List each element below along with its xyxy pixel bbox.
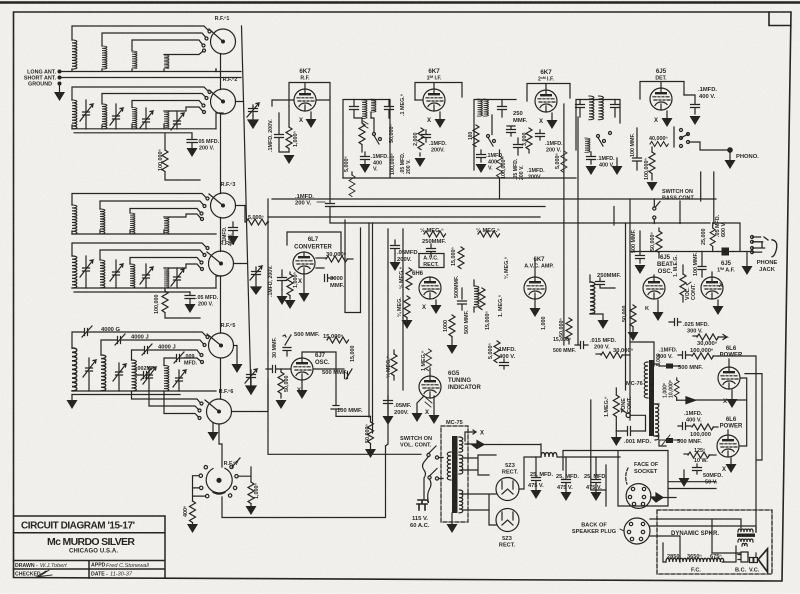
trimmer C9 bank5 <box>83 358 96 391</box>
switch R.F.7 <box>199 458 240 498</box>
capacitor .1MFD 200V 6L7 <box>277 270 288 305</box>
tube 6J5 DET <box>650 88 672 110</box>
resistor 100000 6L6b <box>692 424 718 430</box>
label 400 RF7 <box>183 506 189 517</box>
resistor half meg bus <box>424 231 446 237</box>
resistor 25000 af <box>710 223 715 252</box>
label X 6L6a <box>723 399 727 405</box>
wire vertical x403 <box>402 229 404 390</box>
label .1MFD 200V 2IF <box>545 141 563 154</box>
resistor quarter meg v <box>402 296 413 329</box>
label .05MFD 200V T2 <box>513 158 525 180</box>
capacitor 3000 MMF <box>316 268 334 282</box>
capacitor 1MFD 400V T1 <box>360 152 371 173</box>
wire 6J5DET plate top <box>640 82 684 100</box>
coil T2 secondary <box>484 99 489 116</box>
variable capacitor RF6 out <box>245 369 257 394</box>
wire 6K71IF grid <box>415 99 422 101</box>
wire det column b <box>700 172 702 201</box>
label X 6J7 <box>297 388 301 394</box>
coil L1 bank1 <box>72 40 77 69</box>
capacitor 4000J lower <box>132 344 204 360</box>
capacitor .1MFD 400V T2 <box>476 150 487 173</box>
label 100000 6L6a <box>690 347 714 354</box>
ground 6L6b <box>726 458 737 473</box>
label PHONO <box>736 154 759 160</box>
wire RF7 bottom long <box>222 446 386 518</box>
capacitor T2 primary <box>498 101 507 118</box>
wire switch shaft RF3-RF4 <box>220 218 222 252</box>
title block box <box>14 516 166 578</box>
coil L4 bank1 <box>164 55 169 69</box>
wire output stage box <box>630 342 666 446</box>
tube 6J7 <box>291 358 313 380</box>
label .1MFD 200V 6L7 <box>268 265 274 297</box>
node PHONO <box>725 148 736 169</box>
label 10000 mid <box>669 380 675 398</box>
wire bank1 stair 3 <box>132 40 205 51</box>
wire bus y228 <box>330 217 710 223</box>
coil L17 bank5 <box>72 348 77 391</box>
capacitor .1MFD 200V 2IF <box>536 130 545 140</box>
wire vertical x622 <box>625 223 627 390</box>
label 4000J upper <box>131 335 149 341</box>
label quarter MEG right <box>503 257 510 279</box>
label TONE CONT <box>621 396 633 413</box>
label 50000 osc out <box>365 424 371 443</box>
capacitor 500MNF 6L6a <box>659 364 680 369</box>
ground 6L7 cathode <box>299 275 310 302</box>
capacitor 30MMF <box>266 366 290 373</box>
wire bus y197 <box>272 198 716 200</box>
capacitor .1MFD 200V plate <box>326 204 335 218</box>
capacitor 25MFD 475V no2 <box>561 457 572 501</box>
label 15000 rot osc <box>350 346 356 363</box>
title text Mc MURDO SILVER <box>47 536 135 555</box>
label .1MFD 200V 1IF <box>429 141 447 154</box>
capacitor .05 T2 <box>514 138 523 155</box>
wire det column c <box>713 172 715 224</box>
wire bank1 stair 2 <box>102 33 208 46</box>
label 6J5 BEAT OSC <box>657 255 673 275</box>
tube 6L7 <box>293 252 315 274</box>
wire vertical x562 <box>563 104 565 345</box>
wire vertical x630 bass <box>629 199 631 420</box>
wire bank2 bottom bus <box>72 124 216 129</box>
ground 6K7RF cathode <box>306 112 317 128</box>
tube 6H6 <box>419 277 441 299</box>
tube 6L6 top <box>718 359 740 389</box>
label .1MFD 200V T2 low <box>527 168 545 181</box>
label 100000 T1 <box>390 153 396 175</box>
capacitor .001 MFD <box>616 427 645 436</box>
resistor 50000 osc out <box>365 416 376 458</box>
wire bus y217 <box>268 216 540 218</box>
capacitor 500MMF 6H6 <box>458 288 467 310</box>
label X 1st AF <box>719 283 723 289</box>
resistor 1000 v 6H6 <box>447 315 458 354</box>
wire vertical x569 <box>577 117 579 345</box>
label 1MEG vol <box>673 255 679 277</box>
ground 6H6 <box>431 300 442 314</box>
ground bank5 <box>67 395 78 410</box>
coil L19 bank5 <box>132 360 137 391</box>
capacitor .015 <box>575 342 588 349</box>
label 1MEG right <box>498 295 504 317</box>
capacitor .05 600V <box>718 248 733 256</box>
resistor 50000 mid <box>566 318 572 344</box>
label .002MF <box>136 366 156 372</box>
label .05MFD 200V T1 <box>400 152 412 174</box>
label X 6L6b <box>722 467 726 473</box>
label 5Z3 RECT top <box>502 463 519 476</box>
label 250MMF beat <box>597 273 621 279</box>
label 500MMF osc2 <box>322 370 348 376</box>
label .05MFD 200V avc <box>397 250 420 263</box>
resistor 2000 v <box>418 128 424 150</box>
potentiometer VOL CONT <box>680 265 691 302</box>
wire speaker connections <box>650 519 756 562</box>
wire socket plug verticals <box>591 400 606 490</box>
resistor 3000 cath <box>526 128 532 153</box>
wire 6K7RF grid left <box>272 100 293 106</box>
ground 6J5DET cathode <box>662 111 673 127</box>
wire bank3 bottom bus <box>72 230 216 234</box>
label 3000 MMF <box>330 276 345 289</box>
label 4000J lower <box>158 345 176 351</box>
label SWITCH ON VOL CONT <box>400 436 432 449</box>
wire vertical x361 <box>369 223 373 433</box>
wire bank4 stair 1 <box>72 243 209 256</box>
resistor BFO <box>479 288 485 310</box>
label 100MMF af <box>693 252 699 276</box>
coil L6 bank2 <box>102 104 107 129</box>
label .025 MFD 300V <box>683 322 710 335</box>
wire bus y178 <box>343 177 576 179</box>
coil AVC plate <box>590 275 609 329</box>
wire bank4 stair 3 <box>130 258 203 265</box>
wire RF6 right out <box>232 380 269 412</box>
label 6J5 1st AF <box>717 261 735 274</box>
label half MEG 6H6 <box>398 267 405 289</box>
label 6K7 R.F. <box>299 68 311 82</box>
resistor 30000 bass <box>693 334 727 340</box>
capacitor .1MFD 6L6b <box>678 423 691 430</box>
contacts T3 switch <box>597 132 612 147</box>
label 500MMF 6H6 <box>454 275 460 298</box>
capacitor T3 secondary <box>611 100 620 118</box>
label quarter meg G5 <box>385 356 392 378</box>
resistor 50000 beat <box>628 305 639 341</box>
label 5000 RF3 <box>248 215 264 221</box>
capacitor 500MMF 15000 mid <box>553 337 576 354</box>
wire bank3 stair 1 <box>72 194 209 206</box>
capacitor 25MFD 475V no3 <box>591 457 602 501</box>
wire 6L6 plates right <box>695 356 762 532</box>
transformer MC-76 core <box>649 360 654 436</box>
switch R.F.1 <box>209 29 236 54</box>
wire 6K72IF plate top <box>527 84 570 102</box>
transformer MC-75 secondary top <box>459 437 463 452</box>
coil L9 bank3 <box>72 205 77 234</box>
coil L20 bank5 <box>164 366 169 392</box>
label 500MMF beatosc <box>631 229 637 253</box>
box FACE OF SOCKET <box>563 451 716 507</box>
wire bank5 stairs to RF6 <box>132 391 204 405</box>
resistor 1000 6K7RF <box>284 106 295 164</box>
wire B plus row <box>465 444 541 489</box>
resistor 30000 6L7 <box>316 256 353 262</box>
leader face of socket <box>626 468 628 484</box>
label .1MFD 400V g5 <box>497 347 516 360</box>
tube 6K7 R.F. <box>294 89 316 111</box>
trimmer C5 <box>80 256 93 288</box>
contacts T1 switch <box>371 118 382 144</box>
label quarter MEG bus <box>476 227 500 234</box>
resistor 125 10W <box>684 452 716 458</box>
resistor 30000 line <box>596 352 630 358</box>
label 5Z3 RECT bottom <box>499 536 516 549</box>
arrow mid feed <box>677 397 696 404</box>
coil T3 small <box>585 138 590 153</box>
choke coil psu <box>541 453 620 458</box>
ground 6L6a <box>727 390 738 408</box>
transformer MC-75 primary <box>447 452 451 480</box>
capacitor .1MFD 400V DET <box>684 95 701 125</box>
label 50000 T1 <box>389 124 395 143</box>
wire RF2 out right <box>216 102 244 129</box>
capacitor 500MMF osc top <box>283 335 291 356</box>
coil L3 bank1 <box>132 51 137 69</box>
title text checked/date row <box>15 572 133 578</box>
trimmer C3 <box>140 108 153 129</box>
box DYNAMIC SPKR dashed <box>657 510 772 574</box>
wire bank5 bottom bus <box>72 391 216 395</box>
label 6L6 POWER bottom <box>720 417 743 430</box>
label 100MMF osc out <box>337 408 363 414</box>
label 30000 line <box>613 347 634 354</box>
trimmer C4 <box>171 112 184 130</box>
coil T3 secondary <box>599 96 604 120</box>
wire RF5 down ground <box>232 346 243 374</box>
resistor 100000 bank2 <box>162 150 200 180</box>
label 6K7 AVC AMP <box>524 257 554 270</box>
label 1000 RF7 <box>254 483 260 499</box>
resistor 100000 T2 <box>497 150 503 199</box>
label .1MFD 400V 6L6a <box>657 348 678 361</box>
label 5000 T3 <box>555 153 561 169</box>
resistor 1MEG 6G5 <box>426 349 432 371</box>
trimmer C10 bank5 <box>113 363 126 391</box>
capacitor .05 avc <box>390 240 401 271</box>
label 500 MNF 6L6b <box>677 439 702 445</box>
contacts T2 switch <box>487 115 496 146</box>
capacitor .1MFD 6L6a <box>678 352 691 359</box>
label 30000 bass <box>697 340 718 347</box>
wire vertical x388 <box>386 229 389 446</box>
tube 6J5 1st AF <box>701 272 723 299</box>
capacitor .05 6G5 <box>383 396 394 425</box>
switch R.F.6 <box>205 399 232 424</box>
capacitor .1MFD 200V 1IF <box>415 130 431 167</box>
label 30MMF <box>272 337 278 358</box>
wire bank1 stair 1 <box>72 26 211 40</box>
wire bank3 stair 4 <box>164 214 204 221</box>
wire 6K7RF plate top <box>289 83 330 107</box>
wire bank5 stair3 RF6 <box>164 391 201 420</box>
label 50000 beat <box>622 306 628 323</box>
trimmer C8 <box>171 268 184 288</box>
label 6K7 1st IF <box>427 68 442 82</box>
label X MC75 <box>480 431 484 437</box>
switch R.F.3 <box>209 193 236 218</box>
coil L16 bank4 <box>164 268 169 288</box>
switch R.F.5 <box>207 333 234 358</box>
label 6L6 POWER top <box>720 346 743 359</box>
capacitor .1MFD 400V T3 <box>586 152 623 175</box>
label X 6K7RF <box>299 118 303 124</box>
transformer MC-76 winding lower <box>655 404 659 440</box>
label 1000 6H6 <box>443 320 449 332</box>
wire bank3 stair 2 <box>100 201 206 209</box>
resistor quarter meg G5 <box>391 350 397 380</box>
trimmer C1 <box>80 100 93 129</box>
label X 6L7 <box>298 279 302 285</box>
resistor 15000 osc <box>327 337 349 343</box>
wire mains cord <box>423 457 432 504</box>
resistor 5000 T3 <box>561 151 567 173</box>
label 1 MEG T1 <box>400 94 406 116</box>
phone jack symbol <box>751 236 777 257</box>
ground 6G5 <box>412 396 440 424</box>
label 6H6 <box>412 271 424 277</box>
ground 6K72IF cathode <box>547 113 558 129</box>
capacitor .1MFD 200V 6K7RF <box>275 113 290 152</box>
transformer MC-75 secondary mid <box>459 455 463 474</box>
bass contact bank <box>674 127 690 148</box>
label 1MEG 6G5 <box>421 351 427 371</box>
wire 6K7RF plate right down <box>317 97 330 203</box>
label 1MEG tone <box>604 397 610 417</box>
label BC VC <box>735 568 760 574</box>
wire rect plates <box>463 455 496 525</box>
potentiometer tone <box>611 388 622 446</box>
capacitor .002MF <box>136 369 151 380</box>
label 6L7 CONVERTER <box>294 237 332 251</box>
IF transformer T1 can <box>343 100 390 179</box>
capacitor 4000J upper <box>101 334 206 355</box>
label 50MFD 50V <box>703 473 723 486</box>
variable capacitor RF4 out <box>250 266 262 294</box>
border corner tab <box>769 12 791 26</box>
socket arrow <box>651 493 676 502</box>
wire bank2 lower bus <box>74 133 192 150</box>
ground MC75 <box>447 513 458 533</box>
label 25000 af <box>701 229 707 246</box>
label 1000 mid <box>663 383 669 398</box>
switch R.F.4 <box>207 251 234 276</box>
wire shaft RF6-RF7 <box>219 424 222 467</box>
wire bank1 bottom bus long ant <box>60 69 217 72</box>
label PHONE JACK <box>757 260 778 273</box>
label 1MFD 400V T1 <box>371 154 389 173</box>
label 100000 bank4 <box>154 295 160 315</box>
ground 6K71IF cathode <box>435 112 446 128</box>
wire bank4 stair 2 <box>100 250 206 260</box>
label 100 MMF <box>630 133 636 157</box>
variable capacitor RF2 out <box>247 103 259 128</box>
trimmer C12 bank5 <box>173 370 186 391</box>
label 500 MNF 6L6a <box>678 365 703 371</box>
label 500MMF BFO <box>464 310 470 334</box>
label 6K7 2nd IF <box>538 69 555 83</box>
antenna input labels <box>24 70 57 88</box>
wire bank2 stair 4 <box>164 107 206 114</box>
capacitor 500MNF 6L6b <box>659 435 680 445</box>
label VOL CONT <box>685 283 697 300</box>
ground 6J7 <box>297 381 308 399</box>
transformer MC-76 winding <box>644 362 648 398</box>
label .015 MFD 200V <box>590 338 617 351</box>
ground beat osc <box>653 300 664 321</box>
voice coil lead <box>712 553 756 557</box>
IF transformer T3 can <box>576 100 620 151</box>
capacitor .1MFD 400V inter-switch <box>228 222 239 245</box>
label AVC RECT <box>423 256 439 269</box>
label 40000 <box>649 136 668 142</box>
coil L18 bank5 <box>101 355 106 391</box>
label 30000 6L7 <box>326 251 347 258</box>
capacitor 250MMF beat <box>596 278 616 288</box>
tube 5Z3 top <box>496 478 519 501</box>
label 6J5 DET <box>655 68 667 82</box>
wire bank4 stair 4 <box>164 264 204 271</box>
voice coil squares <box>750 558 758 563</box>
trimmer C6 <box>110 260 123 288</box>
label 6G5 TUNING INDICATOR <box>448 371 481 391</box>
resistor 40000 <box>650 141 668 146</box>
coil L13 bank4 <box>72 256 77 288</box>
capacitor 500MMF osc2 <box>314 369 352 379</box>
wire switch shaft RF2-RF3 <box>220 114 222 194</box>
resistor 50000 osc <box>276 369 287 409</box>
capacitor .1MFD g5 <box>500 359 509 369</box>
label 1000 6L7 <box>293 272 299 288</box>
capacitor 25MFD 475V no1 <box>531 457 542 499</box>
resistor 1000 RF7 <box>238 467 257 515</box>
capacitor .009 MFD <box>164 352 204 366</box>
label 100000 det <box>644 158 650 180</box>
slug arrows T1 <box>363 121 368 128</box>
ground phone <box>742 252 753 275</box>
label .1MFD 400V T2 <box>486 153 504 172</box>
label 125 10W <box>694 448 708 464</box>
label 4000G <box>101 327 121 333</box>
coil L15 bank4 <box>130 264 135 288</box>
capacitor T3 primary <box>576 100 585 118</box>
tube 6L6 bottom <box>717 430 739 457</box>
label R.F.2 <box>223 77 238 83</box>
resistor 10000 mid <box>674 378 679 400</box>
label 100000 bank2 <box>158 149 164 171</box>
BFO coil <box>474 280 479 312</box>
capacitor .025 <box>669 319 681 326</box>
label 1000 6K7RF <box>293 131 299 147</box>
label .1MFD 400V DET <box>698 87 717 100</box>
wire switch shaft RF5-RF6 <box>220 358 222 399</box>
capacitor .05MFD 200V bank2 <box>187 137 198 157</box>
label .1MFD 400V T3 <box>597 156 615 169</box>
